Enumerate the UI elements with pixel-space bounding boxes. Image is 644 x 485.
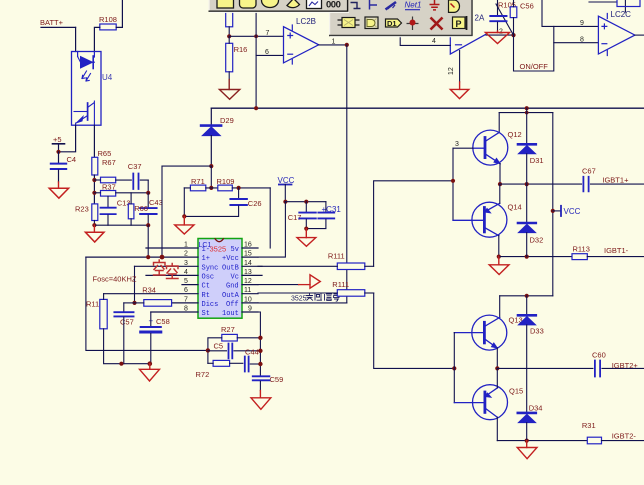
wire upper resistor to pin7 node xyxy=(228,27,230,37)
junction R105 bottom xyxy=(511,33,515,37)
transistor Q13 xyxy=(454,315,522,350)
wire LC2C vplus top xyxy=(624,0,626,12)
wire Q14 collector down xyxy=(498,236,500,257)
toolbar icon junction tool xyxy=(407,17,419,31)
svg-text:IGBT1+: IGBT1+ xyxy=(602,176,629,185)
wire LC2C pin9 feed xyxy=(542,0,598,26)
wire LC2A output to node xyxy=(486,34,514,36)
svg-text:3: 3 xyxy=(455,141,459,148)
svg-text:IGBT2+: IGBT2+ xyxy=(612,361,639,370)
svg-text:6: 6 xyxy=(265,49,269,56)
junction row368 xyxy=(495,366,499,370)
svg-text:+Vcc: +Vcc xyxy=(222,255,239,263)
svg-text:C67: C67 xyxy=(582,167,596,176)
capacitor C4 xyxy=(51,152,76,182)
wire R65 bottom vertical to R23 xyxy=(93,175,95,204)
svg-text:D33: D33 xyxy=(530,327,544,336)
junction VCC rail left xyxy=(283,200,287,204)
junction C44 right xyxy=(258,362,262,366)
svg-text:C26: C26 xyxy=(248,199,262,208)
annotation 3525 shutdown signal xyxy=(291,294,339,303)
svg-text:C43: C43 xyxy=(149,198,163,207)
svg-text:R108: R108 xyxy=(99,15,117,24)
svg-text:D29: D29 xyxy=(220,116,234,125)
svg-text:C56: C56 xyxy=(520,2,534,11)
resistor R66 xyxy=(128,193,148,225)
svg-text:IGBT1-: IGBT1- xyxy=(604,246,629,255)
port arrow 3525 shutdown xyxy=(299,275,321,288)
junction base drive xyxy=(451,179,455,183)
wire row368 to C60 xyxy=(497,367,593,369)
toolbar icon no-ERC tool xyxy=(431,18,443,30)
annotation kong kong xyxy=(154,260,179,279)
toolbar icon port tool D1 xyxy=(386,19,402,28)
capacitor C60 xyxy=(592,351,644,377)
wire pin2 left vertical down and feedback row xyxy=(86,257,208,350)
ground below C4 xyxy=(49,182,68,198)
svg-text:R111: R111 xyxy=(332,280,349,289)
svg-text:R113: R113 xyxy=(573,245,590,254)
optocoupler U4 xyxy=(72,52,113,126)
junction D34 bottom xyxy=(525,439,529,443)
svg-text:R65: R65 xyxy=(98,149,112,158)
diode D31 xyxy=(518,108,544,184)
svg-text:C4: C4 xyxy=(67,155,77,164)
svg-text:R66: R66 xyxy=(134,204,148,213)
wire row184 to C67 xyxy=(500,183,582,185)
svg-text:C5: C5 xyxy=(214,342,224,351)
svg-text:C44: C44 xyxy=(245,348,259,357)
wire x134.5 vertical pin3 to pin7 row xyxy=(134,266,136,303)
wire Q12 base row xyxy=(453,147,473,149)
svg-text:Fosc=40KHZ: Fosc=40KHZ xyxy=(93,275,137,284)
resistor R109 xyxy=(217,177,271,191)
transistor Q15 xyxy=(454,385,523,420)
wire R111a right up to base row xyxy=(374,181,453,266)
wire D29 down to R71/R109 node xyxy=(210,166,212,188)
wire pin3 line xyxy=(135,265,199,267)
toolbar icon sheet symbol tool xyxy=(365,17,378,29)
svg-text:R72: R72 xyxy=(196,370,210,379)
junction LC2B output xyxy=(345,43,349,47)
ground below C58 xyxy=(140,364,160,381)
junction C26 top xyxy=(237,186,241,190)
wire row256 xyxy=(499,256,572,258)
resistor R37 lower xyxy=(94,191,115,197)
op-amp LC2A partially hidden xyxy=(450,14,485,55)
ground below R71 node xyxy=(175,216,194,234)
ground below Q14 xyxy=(489,257,509,275)
junction C57 bottom rail xyxy=(119,362,123,366)
resistor R27 xyxy=(208,325,261,363)
wire main bus y108 xyxy=(211,107,644,109)
op-amp LC2C xyxy=(598,10,635,56)
toolbar icon bus tool xyxy=(386,2,397,10)
ground below LC2A xyxy=(450,82,469,99)
wire base vertical Q12/Q14 xyxy=(452,148,454,220)
toolbar icon part tool xyxy=(338,18,360,28)
junction D31 on bus B xyxy=(525,111,529,115)
wire R111b right down to lower base row xyxy=(374,293,455,368)
toolbar icon wire tool xyxy=(351,3,361,9)
capacitor C5 xyxy=(208,342,261,359)
toolbar icon bus entry tool xyxy=(370,0,378,10)
svg-text:ON/OFF: ON/OFF xyxy=(520,62,549,71)
junction pin2/C43 column xyxy=(146,255,150,259)
junction C37/R37b/C43 xyxy=(146,191,150,195)
svg-text:7: 7 xyxy=(266,30,270,37)
svg-text:Q12: Q12 xyxy=(508,130,522,139)
svg-text:VCC: VCC xyxy=(564,207,581,216)
wire C37 right corner down xyxy=(147,180,149,193)
ground below C59 xyxy=(251,391,271,410)
IC pin stubs right xyxy=(242,248,262,312)
svg-text:C37: C37 xyxy=(128,162,142,171)
IC pin numbers left xyxy=(184,242,188,313)
junction R34 left xyxy=(132,301,136,305)
resistor R111 lower xyxy=(258,280,374,296)
toolbar icon rectangle tool xyxy=(217,0,234,8)
svg-text:Q15: Q15 xyxy=(509,387,523,396)
resistor R23 xyxy=(75,204,98,225)
svg-text:3525: 3525 xyxy=(210,245,227,254)
svg-text:Osc: Osc xyxy=(202,274,215,282)
wire Q12 emitter down to row184 xyxy=(499,164,501,185)
capacitor C26 xyxy=(184,188,261,217)
svg-text:R34: R34 xyxy=(142,286,156,295)
svg-text:Vc: Vc xyxy=(231,274,239,282)
wire x256 vertical from toolbar to bus xyxy=(255,12,257,108)
wire x162 vertical to IC pin2 line xyxy=(161,166,163,257)
resistor R65 / R67 xyxy=(92,149,116,175)
resistor R34 xyxy=(135,286,172,307)
IC pin names right xyxy=(222,246,240,318)
wire C43 column down to IC pin2 line xyxy=(147,225,149,257)
svg-text:OutB: OutB xyxy=(222,264,239,272)
wire row440 xyxy=(497,440,587,442)
junction C17 bottom xyxy=(304,227,308,231)
resistor top right corner xyxy=(617,0,640,7)
junction C17 top xyxy=(304,200,308,204)
wire Q13 emitter down to row368 xyxy=(496,348,498,368)
ground below C56 xyxy=(485,31,509,44)
wire pin12 stub to port xyxy=(258,284,299,286)
svg-text:P: P xyxy=(456,19,462,29)
capacitor C58 electrolytic xyxy=(141,312,170,364)
ground below R23 xyxy=(85,225,104,242)
wire pin4 stub xyxy=(146,274,198,276)
toolbar icon sheet symbol tool small xyxy=(449,0,460,12)
capacitor C44 xyxy=(245,348,261,372)
ground below D34 xyxy=(517,441,537,459)
wire BATT+ horizontal xyxy=(41,26,76,28)
resistor R16 xyxy=(226,36,248,79)
capacitor C59 xyxy=(253,375,283,391)
wire base vertical Q13/Q15 xyxy=(453,333,455,403)
transistor Q12 xyxy=(473,130,522,165)
svg-text:R27: R27 xyxy=(221,325,235,334)
wire LC2B output xyxy=(319,44,347,46)
wire LC2C output xyxy=(635,34,644,36)
wire LC2C pin8 feed xyxy=(554,42,599,44)
svg-text:Gnd: Gnd xyxy=(226,283,239,291)
svg-text:R16: R16 xyxy=(234,45,248,54)
capacitor C43 xyxy=(140,193,163,225)
junction R23 bottom xyxy=(92,223,96,227)
junction C58 bottom rail xyxy=(148,361,153,366)
transistor Q14 xyxy=(453,202,522,237)
diode D34 xyxy=(518,404,543,441)
toolbar icon ellipse tool xyxy=(262,0,279,8)
wiring tools toolbar xyxy=(329,0,473,37)
resistor R37 upper xyxy=(94,177,115,191)
svg-text:9: 9 xyxy=(580,20,584,27)
toolbar icon net label tool xyxy=(405,1,422,10)
svg-text:D1: D1 xyxy=(387,19,397,28)
wire LC2A pin4 xyxy=(400,37,450,46)
resistor R72 xyxy=(196,360,243,379)
wire LC2B pin6 xyxy=(256,54,283,56)
diode D32 xyxy=(518,184,543,257)
svg-text:2A: 2A xyxy=(475,14,485,23)
svg-text:3525: 3525 xyxy=(291,296,307,303)
junction VCC tap xyxy=(551,209,555,213)
wire pin9 branch down x260 xyxy=(258,312,260,376)
wire branch to x162 vertical xyxy=(162,165,211,167)
wire Q15 emitter up to row368 xyxy=(496,368,498,387)
svg-text:4: 4 xyxy=(432,38,436,45)
svg-text:Dics: Dics xyxy=(202,301,219,309)
wire VCC node down to IC pin15 xyxy=(258,202,285,257)
svg-text:BATT+: BATT+ xyxy=(40,18,64,27)
svg-text:C58: C58 xyxy=(156,317,170,326)
junction D29 left branch xyxy=(209,164,213,168)
junction R16 top xyxy=(227,34,231,38)
svg-text:Net1: Net1 xyxy=(405,1,422,10)
wire feedback x347 vertical down to pin10 row xyxy=(346,45,348,303)
resistor R114 xyxy=(86,294,150,364)
junction pin2/x162 xyxy=(160,255,165,260)
wire pin10 row to feedback vertical xyxy=(258,302,347,304)
junction C5 right xyxy=(258,349,262,353)
IC pin numbers right xyxy=(244,242,252,313)
resistor R108 xyxy=(99,15,117,30)
svg-text:5v: 5v xyxy=(231,246,239,254)
capacitor C37 xyxy=(116,162,149,189)
wire pin1 stub xyxy=(146,247,198,249)
wire U4 emitter to +5 node xyxy=(59,125,76,152)
svg-text:8: 8 xyxy=(580,37,584,44)
wire pin5 stub xyxy=(182,284,198,286)
svg-text:Off: Off xyxy=(226,301,239,309)
wire pin7 line xyxy=(172,302,198,304)
svg-text:1-: 1- xyxy=(202,246,210,254)
wire top right corner net xyxy=(589,1,617,3)
power VCC right xyxy=(553,206,581,216)
power VCC xyxy=(278,176,295,202)
svg-text:Q14: Q14 xyxy=(508,203,522,212)
wire net R37b to C43 xyxy=(116,192,149,194)
svg-text:1out: 1out xyxy=(222,310,239,318)
capacitor C13 xyxy=(101,196,131,225)
svg-text:Ct: Ct xyxy=(202,283,210,291)
wire Q15 collector down to row440 xyxy=(496,417,498,440)
diode D33 xyxy=(518,296,544,412)
junction C43 bottom xyxy=(146,223,150,227)
junction pin7/x256 xyxy=(254,34,258,38)
capacitor C31 electrolytic xyxy=(306,202,341,229)
resistor R105 xyxy=(498,0,517,35)
capacitor C57 xyxy=(114,303,134,364)
wire ON/OFF net xyxy=(514,26,554,71)
junction D33 top xyxy=(525,294,529,298)
svg-text:C57: C57 xyxy=(120,318,134,327)
wire bus B y112.6 xyxy=(499,112,553,114)
wire U4 anode drop xyxy=(75,27,77,51)
toolbar icon power port tool xyxy=(430,0,440,10)
svg-text:000: 000 xyxy=(326,0,341,11)
svg-text:+5: +5 xyxy=(53,135,62,144)
wire collector loop Q12 xyxy=(498,113,500,133)
junction row 256 left xyxy=(497,255,501,259)
wire VCC rail xyxy=(285,201,326,203)
wire LC2B pin7 xyxy=(229,35,283,37)
resistor R71 xyxy=(184,177,218,191)
wire R108 left to U4 cathode pin xyxy=(94,27,99,51)
drawing tools toolbar xyxy=(209,0,350,12)
junction D32 bottom xyxy=(525,255,529,259)
svg-text:R67: R67 xyxy=(102,158,116,167)
ground below R16 xyxy=(219,80,239,100)
ground below C17 xyxy=(297,229,316,247)
junction R37 lower xyxy=(92,191,96,195)
resistor R111 upper xyxy=(258,252,374,270)
wire pin2 line long xyxy=(86,256,198,258)
wire R109 right up-branch to IC pin16 xyxy=(269,188,271,248)
svg-text:U4: U4 xyxy=(102,73,113,82)
junction R37 upper xyxy=(92,178,96,182)
resistor R31 xyxy=(582,421,644,444)
junction bracket mid xyxy=(206,348,210,352)
power +5 xyxy=(53,135,65,152)
svg-text:1: 1 xyxy=(332,39,336,46)
svg-text:R23: R23 xyxy=(75,205,89,214)
junction gnd node xyxy=(182,214,186,218)
wire R71 left down to gnd node xyxy=(183,188,185,217)
wire bottom rail R23 to C43 xyxy=(94,224,148,226)
junction R71/R109 xyxy=(209,186,213,190)
svg-text:St: St xyxy=(202,310,210,318)
junction base row368 xyxy=(452,366,456,370)
wire R108 right up to sheet top xyxy=(116,0,122,27)
wire LC2A emitter output down xyxy=(459,51,461,83)
svg-text:12: 12 xyxy=(448,67,455,75)
junction emitters row184 xyxy=(498,182,502,186)
junction x256/bus xyxy=(254,106,258,110)
op-amp LC2B xyxy=(284,17,319,64)
svg-text:R111: R111 xyxy=(328,252,345,261)
capacitor C56 xyxy=(490,0,533,31)
toolbar icon PCB directive tool xyxy=(453,16,467,30)
capacitor C17 xyxy=(288,202,316,229)
resistor R113 xyxy=(572,245,644,260)
wire pin8 line xyxy=(151,311,198,313)
toolbar icon pie chart tool xyxy=(287,0,300,8)
junction D31 bottom xyxy=(525,182,529,186)
wire Q13 collector drop xyxy=(499,296,501,318)
IC LC1 SG3525 body xyxy=(198,239,242,319)
node BATT+ xyxy=(40,18,64,27)
toolbar icon graph tool xyxy=(307,0,322,9)
junction D31 on bus xyxy=(525,106,529,110)
svg-text:D31: D31 xyxy=(530,156,544,165)
toolbar icon rounded rectangle tool xyxy=(240,0,257,8)
svg-text:R31: R31 xyxy=(582,421,596,430)
svg-text:OutA: OutA xyxy=(222,292,240,300)
junction R27 right xyxy=(258,336,262,340)
capacitor C67 xyxy=(582,167,644,192)
svg-text:D34: D34 xyxy=(529,404,543,413)
wire VCC column xyxy=(552,113,554,296)
svg-text:1+: 1+ xyxy=(202,255,210,263)
junction +5/C4 xyxy=(56,150,60,154)
resistor upper feed of R16 xyxy=(226,12,233,27)
wire U4 collector to R65 xyxy=(93,125,95,157)
svg-text:LC2C: LC2C xyxy=(611,10,632,19)
IC pin names left xyxy=(202,246,219,318)
svg-text:Rt: Rt xyxy=(202,292,210,300)
svg-text:D32: D32 xyxy=(530,236,544,245)
wire VCC column elbow to D33 top xyxy=(500,295,553,297)
diode D29 xyxy=(201,108,234,166)
wire Q14 emitter up to row184 xyxy=(499,184,501,203)
wire diagonal near R105 xyxy=(496,4,514,35)
svg-text:IGBT2-: IGBT2- xyxy=(612,432,637,441)
svg-text:C59: C59 xyxy=(270,375,284,384)
wire pin6 line xyxy=(104,293,198,295)
svg-text:C60: C60 xyxy=(592,351,606,360)
svg-text:Sync: Sync xyxy=(202,264,219,272)
svg-text:LC2B: LC2B xyxy=(296,17,316,26)
